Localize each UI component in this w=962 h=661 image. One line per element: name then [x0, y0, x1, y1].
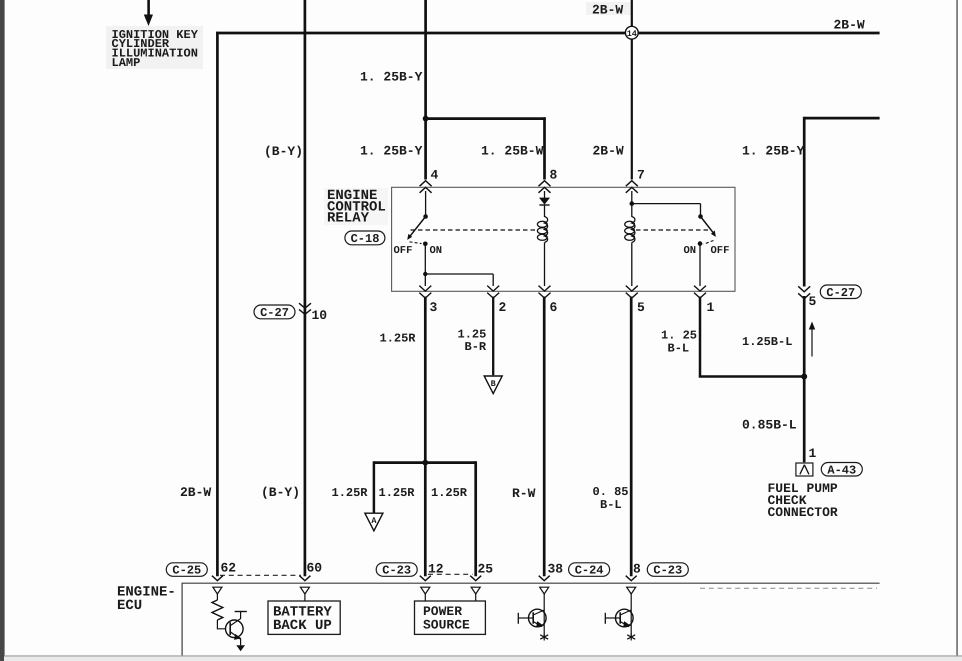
wire 1.25B-W vertical (to relay pin 8)	[543, 117, 546, 179]
svg-text:ON: ON	[430, 245, 443, 257]
wire branch to ground A	[373, 461, 376, 512]
svg-text:ON: ON	[684, 245, 697, 257]
svg-text:C-23: C-23	[382, 564, 411, 578]
ECU pin 12	[420, 576, 431, 581]
svg-text:62: 62	[221, 561, 237, 576]
svg-text:60: 60	[307, 561, 323, 576]
ECU pin 38	[539, 576, 550, 581]
bottom window edge	[4, 655, 962, 656]
relay pin 8 connector chevrons	[539, 181, 551, 193]
wire pin 6 down to ECU pin 38	[543, 297, 546, 577]
svg-text:8: 8	[633, 562, 641, 577]
svg-text:38: 38	[548, 562, 564, 577]
wire 1.25B-Y right corner	[804, 117, 879, 120]
ground triangle B	[484, 376, 502, 394]
branch wire to pin 2	[425, 274, 493, 286]
svg-text:B-R: B-R	[465, 340, 487, 354]
svg-text:1.25R: 1.25R	[431, 486, 468, 500]
connector C-27 marks on right wire pin 5	[798, 286, 810, 299]
connector label C-23	[376, 563, 417, 578]
svg-text:A-43: A-43	[827, 463, 856, 477]
svg-text:0. 85: 0. 85	[593, 485, 629, 499]
connector label C-23 right	[647, 563, 688, 578]
svg-text:1. 25B-W: 1. 25B-W	[481, 144, 544, 159]
relay pin 4 connector chevrons	[420, 181, 432, 193]
label ENGINE CONTROL RELAY	[327, 188, 386, 226]
connector label C-24	[569, 563, 610, 578]
wire ON contact down to branch	[424, 244, 426, 274]
relay switch 1 pivot wire	[425, 191, 427, 217]
svg-text:1.25R: 1.25R	[380, 332, 417, 346]
wire B-Y vertical	[304, 0, 307, 576]
mechanical link dashed coil 1	[411, 229, 538, 231]
wire pin 2 to ground B	[492, 297, 494, 376]
svg-text:1.25R: 1.25R	[379, 486, 416, 500]
wire pin 1 down and right	[699, 297, 805, 378]
svg-text:2B-W: 2B-W	[180, 485, 211, 500]
relay switch 1 ON contact	[423, 242, 428, 247]
svg-text:C-24: C-24	[575, 564, 604, 578]
wire branch to ECU pin 25	[474, 461, 477, 576]
wire pin 3 down to junction	[424, 297, 427, 577]
svg-text:R-W: R-W	[512, 486, 536, 501]
wire 2B-W top horizontal bus	[216, 32, 880, 35]
svg-text:B-L: B-L	[600, 498, 622, 512]
scan gray patches	[106, 26, 203, 69]
relay switch 2 arm	[701, 217, 713, 233]
svg-text:C-18: C-18	[351, 232, 380, 246]
svg-text:C-27: C-27	[260, 306, 289, 320]
connector A-43 symbol	[796, 463, 813, 476]
svg-text:SOURCE: SOURCE	[423, 618, 470, 633]
svg-text:BACK UP: BACK UP	[273, 618, 332, 634]
svg-text:5: 5	[809, 294, 817, 309]
ECU pin 25	[470, 576, 481, 581]
relay switch 2 feed from pin 7	[631, 191, 633, 204]
transistor Q1 inside ECU	[217, 620, 225, 629]
label ignition key cylinder illumination lamp	[112, 28, 199, 70]
svg-text:1. 25B-Y: 1. 25B-Y	[742, 144, 805, 159]
svg-text:ECU: ECU	[117, 598, 142, 614]
svg-text:7: 7	[637, 167, 645, 182]
svg-text:2B-W: 2B-W	[592, 3, 623, 18]
wire 2B-W center vertical (node 14 to relay pin 7)	[631, 0, 633, 180]
connector label C-18	[345, 231, 385, 246]
svg-text:OFF: OFF	[394, 245, 413, 257]
wire pin 5 down to ECU pin 8	[630, 297, 633, 577]
ground arrow Q1 emitter	[236, 645, 245, 651]
svg-text:1.25B-L: 1.25B-L	[742, 335, 792, 349]
flow direction up arrow	[811, 328, 813, 357]
svg-text:5: 5	[637, 300, 645, 315]
svg-text:1.25R: 1.25R	[332, 486, 369, 500]
svg-text:1. 25B-Y: 1. 25B-Y	[360, 144, 423, 159]
svg-text:14: 14	[627, 29, 637, 39]
transistor Q2 inside ECU at pin 38	[543, 594, 545, 636]
svg-text:C-27: C-27	[826, 286, 855, 300]
POWER SOURCE box	[425, 594, 475, 601]
relay switch 1 arm	[410, 217, 426, 237]
wire 1.25R branch horizontal	[374, 461, 476, 464]
mechanical link dashed coil 2	[636, 229, 710, 231]
relay pin 3 exit chevrons	[419, 286, 431, 299]
svg-text:OFF: OFF	[711, 245, 730, 257]
svg-text:B: B	[491, 379, 496, 389]
connector label C-25	[166, 563, 207, 578]
diode on pin 8 leg	[544, 191, 546, 198]
ENGINE-ECU box	[182, 583, 880, 655]
chassis ground Q2	[540, 634, 548, 641]
ground triangle A	[365, 513, 383, 531]
svg-text:2B-W: 2B-W	[834, 18, 865, 33]
svg-text:8: 8	[550, 167, 558, 182]
label FUEL PUMP CHECK CONNECTOR	[768, 481, 838, 520]
ECU pin 62	[212, 576, 223, 581]
relay pin 2 exit chevrons	[487, 286, 499, 299]
svg-text:4: 4	[431, 167, 439, 182]
relay switch 1 dashed throw to ON	[410, 242, 422, 244]
engine control relay box C-18	[392, 187, 735, 291]
relay pin 7 connector chevrons	[626, 181, 638, 193]
wire 1.25B-W horizontal	[426, 117, 546, 120]
ECU pin 60	[299, 576, 310, 581]
ECU connector dashed lines	[220, 574, 301, 576]
relay switch 2 ON contact	[698, 241, 703, 246]
svg-text:C-23: C-23	[653, 564, 682, 578]
svg-text:3: 3	[430, 300, 438, 315]
svg-text:2: 2	[499, 300, 507, 315]
svg-text:1. 25B-Y: 1. 25B-Y	[360, 70, 423, 85]
svg-text:(B-Y): (B-Y)	[264, 144, 303, 159]
junction dot 1.25B-Y / 1.25B-W	[423, 116, 429, 122]
BATTERY BACK UP box	[304, 594, 306, 601]
svg-text:LAMP: LAMP	[112, 56, 141, 70]
junction dot 1.25R branch	[422, 460, 428, 466]
svg-text:(B-Y): (B-Y)	[261, 485, 300, 500]
relay pin 6 exit chevrons	[539, 286, 551, 299]
right window edge line	[956, 0, 957, 661]
resistor inside ECU at pin 62	[216, 594, 218, 600]
svg-text:RELAY: RELAY	[327, 211, 370, 227]
junction dot fuel pump line	[801, 374, 807, 380]
transistor Q3 inside ECU at pin 8	[630, 594, 632, 636]
chassis ground Q3	[627, 634, 635, 641]
svg-text:B-L: B-L	[668, 341, 690, 355]
svg-text:1: 1	[809, 446, 817, 461]
wire 2B-W left vertical (to ECU pin 62)	[216, 32, 219, 577]
left window edge bar	[0, 0, 5, 661]
svg-text:1: 1	[707, 300, 715, 315]
relay pin 1 exit chevrons	[694, 286, 706, 299]
node 14	[625, 26, 638, 39]
svg-text:CONNECTOR: CONNECTOR	[768, 505, 838, 520]
wire 1.25B-Y vertical (to relay pin 4)	[424, 0, 427, 180]
relay coil 1	[537, 217, 547, 243]
svg-text:12: 12	[428, 562, 444, 577]
svg-text:6: 6	[550, 300, 558, 315]
arrow from ignition key lamp	[147, 0, 150, 16]
ECU pin 8	[626, 576, 637, 581]
wire right vertical to junction	[803, 296, 806, 462]
svg-text:2B-W: 2B-W	[593, 144, 624, 159]
relay pin 5 exit chevrons	[626, 286, 638, 299]
connector C-27 marks on B-Y wire pin 10	[299, 303, 311, 314]
svg-text:C-25: C-25	[172, 564, 201, 578]
relay coil 2	[625, 217, 635, 243]
svg-text:0.85B-L: 0.85B-L	[742, 417, 797, 432]
svg-text:25: 25	[478, 562, 494, 577]
svg-text:10: 10	[312, 308, 328, 323]
svg-text:A: A	[371, 516, 377, 526]
relay switch 2 dashed throw to ON	[704, 241, 714, 245]
